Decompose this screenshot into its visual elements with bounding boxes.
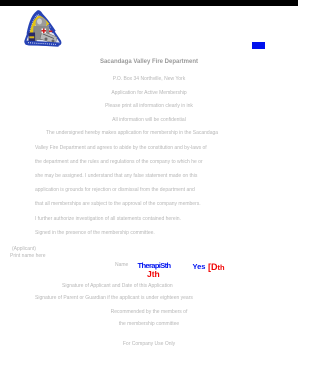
bottom ribbon [25,41,59,47]
top black bar [0,0,298,6]
yellow arc [32,18,49,34]
crest logo [22,8,67,53]
top-right blue mark [252,42,265,49]
navy shield bottom-left [29,33,36,45]
lower lines [62,283,173,289]
red cross [42,29,47,34]
filled blue yes [193,262,206,271]
grey dome (helmet/boiler) [36,18,47,30]
heading line 2 [0,76,298,82]
heading line 5 [0,117,298,123]
filled red word below [147,269,160,279]
bottom centered line [0,341,298,347]
logo box [22,8,67,53]
heading line 4 [0,103,298,109]
filled blue name [138,261,171,270]
grey body [33,26,51,40]
blue title band along top edges [29,13,55,34]
body paragraph [46,130,218,136]
machinery angled to bottom-right [40,31,57,44]
heading line 3 [0,90,298,96]
filled red id [208,262,225,272]
crest outline (left-leaning triangle) [25,11,60,45]
heading line 1 [0,59,298,65]
